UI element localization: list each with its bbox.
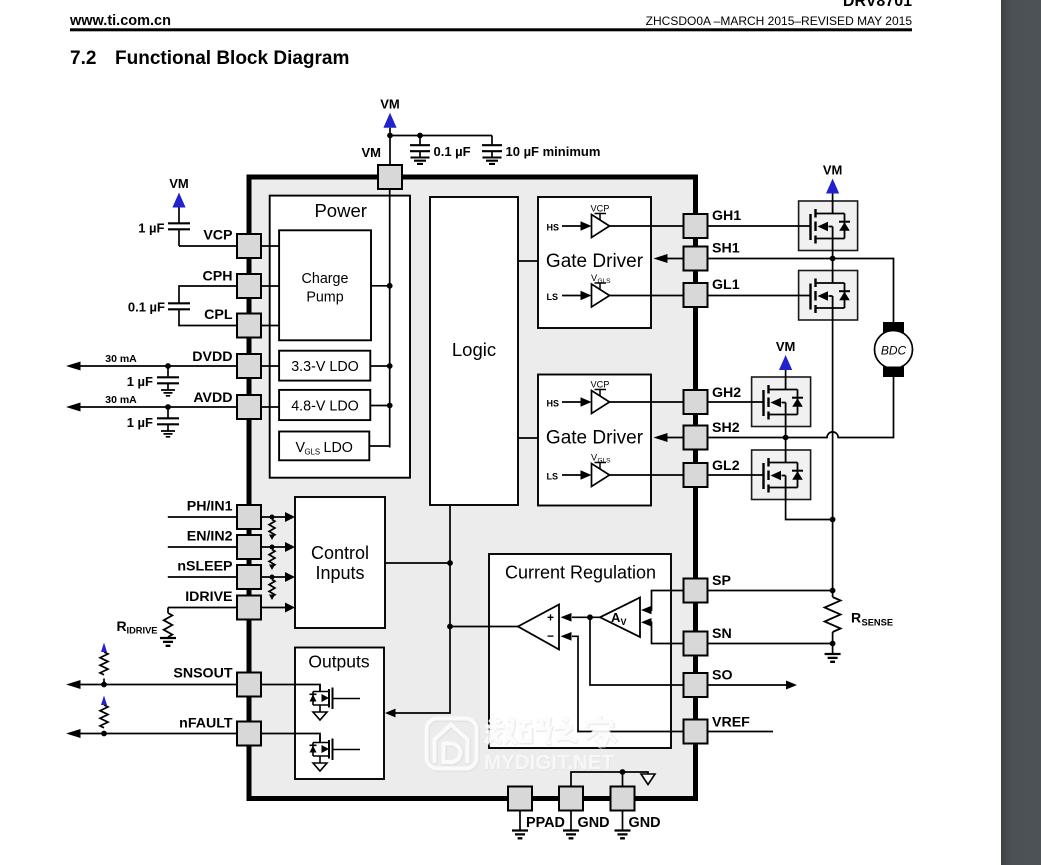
svg-text:Power: Power (314, 200, 366, 221)
wire SN to sense bottom (708, 632, 833, 654)
svg-text:SN: SN (712, 626, 732, 642)
svg-text:DVDD: DVDD (192, 349, 232, 365)
svg-text:www.ti.com.cn: www.ti.com.cn (69, 13, 171, 29)
node AV output tap (587, 614, 593, 620)
svg-text:30 mA: 30 mA (105, 353, 137, 365)
svg-text:VM: VM (776, 339, 796, 354)
wire LS1 to GL1 (610, 295, 684, 297)
svg-text:Inputs: Inputs (315, 563, 364, 583)
wire GL2 to Q4 gate (708, 474, 764, 476)
svg-text:CPH: CPH (203, 269, 233, 285)
wire IDRIVE to control inputs (261, 607, 285, 609)
svg-text:R: R (117, 618, 127, 634)
node SNSOUT pullup (101, 682, 107, 688)
pin PPAD (508, 787, 532, 811)
svg-text:CPL: CPL (204, 307, 233, 323)
node SN (830, 641, 836, 647)
comparator U1 (518, 605, 559, 650)
wire EN/IN2 to control inputs (261, 546, 285, 548)
pullup supply arrow SNSOUT (101, 643, 107, 653)
pin AVDD (237, 395, 261, 419)
pin SP (684, 579, 708, 603)
svg-text:10 µF minimum: 10 µF minimum (506, 144, 601, 159)
node SH2 (783, 435, 789, 441)
wire Q4 source to sense node (786, 500, 833, 520)
wire AVDD to 4.8 LDO (261, 406, 279, 408)
pin VREF (684, 720, 708, 744)
FET box Q4 low side bridge2 (752, 450, 811, 500)
svg-text:SH1: SH1 (712, 241, 740, 257)
pulldown nSLEEP (270, 575, 275, 580)
node control inputs tap (447, 560, 453, 566)
node SP (830, 588, 836, 594)
wire SNSOUT out with arrow (79, 684, 237, 686)
VGLS supply bar LS2 (591, 453, 611, 465)
wire SH2 with hop over sense line (708, 377, 894, 438)
wire Q4 drain to SH2 (785, 438, 787, 451)
pulldown EN/IN2 (270, 545, 275, 550)
resistor R_SENSE (825, 597, 841, 632)
resistor pullup SNSOUT (103, 679, 105, 685)
output FET Q nFAULT (310, 736, 361, 772)
pin VCP (237, 234, 261, 258)
svg-text:Current Regulation: Current Regulation (505, 563, 656, 583)
wire SH1 into gate driver 1 (667, 258, 684, 260)
capacitor 0.1 uF between CPH CPL (179, 286, 237, 326)
svg-text:7.2: 7.2 (70, 48, 96, 69)
pin SH1 (684, 247, 708, 271)
wire HS1 to GH1 (610, 225, 684, 227)
pin SO (684, 673, 708, 697)
svg-text:Charge: Charge (302, 271, 349, 287)
Logic box (430, 197, 518, 505)
wire logic to outputs arrow (394, 505, 450, 713)
wire AV output to SO pin (590, 617, 684, 685)
Current Regulation box (489, 554, 671, 748)
node SH1 (830, 256, 836, 262)
svg-text:0.1 µF: 0.1 µF (128, 300, 165, 315)
wire AVDD out with arrow (79, 406, 237, 408)
svg-text:VREF: VREF (712, 715, 750, 731)
GND2 ground lead (622, 811, 624, 831)
wire Q1 source to Q2 drain (832, 251, 834, 271)
svg-text:Logic: Logic (452, 339, 496, 360)
3.3-V LDO box (279, 351, 370, 381)
label R_IDRIVE (117, 618, 158, 636)
svg-text:EN/IN2: EN/IN2 (187, 529, 233, 545)
wire GL1 to Q2 gate (708, 295, 811, 297)
pin DVDD (237, 354, 261, 378)
pin GH2 (684, 390, 708, 414)
wire HS2 to GH2 (610, 401, 684, 403)
Outputs box (295, 648, 384, 780)
node GND junction (620, 769, 626, 775)
FET box Q3 high side bridge2 (752, 377, 811, 427)
svg-text:Outputs: Outputs (308, 652, 370, 672)
wire DVDD to 3.3 LDO (261, 365, 279, 367)
svg-text:Gate Driver: Gate Driver (546, 428, 644, 449)
resistor pullup nFAULT (103, 732, 105, 734)
wire PH/IN1 to control inputs (261, 516, 285, 518)
pin SH2 (684, 426, 708, 450)
wire GH2 to Q3 gate (708, 401, 764, 403)
svg-text:SNSOUT: SNSOUT (173, 666, 232, 682)
svg-text:IDRIVE: IDRIVE (127, 626, 158, 636)
svg-text:0.1 µF: 0.1 µF (434, 144, 471, 159)
svg-text:HS: HS (547, 223, 560, 233)
FET box Q2 low side bridge1 (799, 271, 858, 321)
wire SH2 into gate driver 2 (667, 437, 684, 439)
node DVDD cap (165, 363, 171, 369)
wire nFAULT to output FET (261, 734, 320, 743)
svg-text:Pump: Pump (306, 290, 343, 306)
wire PH/IN1 input (168, 516, 237, 518)
pin SNSOUT (237, 673, 261, 697)
pin GL1 (684, 283, 708, 307)
pulldown PH/IN1 (270, 515, 275, 520)
svg-text:SENSE: SENSE (862, 618, 894, 628)
svg-text:ZHCSDO0A –MARCH 2015–REVISED M: ZHCSDO0A –MARCH 2015–REVISED MAY 2015 (646, 14, 913, 28)
svg-text:GL1: GL1 (712, 277, 740, 293)
wire VCP to charge pump (261, 245, 279, 247)
wire SP to sense (708, 590, 833, 592)
svg-text:4.8-V LDO: 4.8-V LDO (291, 399, 359, 415)
svg-text:PPAD: PPAD (526, 815, 565, 831)
transistor Q4 (764, 450, 804, 500)
node 3.3 LDO / VM (387, 363, 393, 369)
wire SH1 to half-bridge1 and motor (708, 259, 894, 323)
capacitor 1 uF at AVDD (167, 407, 169, 431)
svg-text:VM: VM (169, 176, 189, 191)
svg-text:A: A (611, 610, 621, 625)
wire nSLEEP input (168, 576, 237, 578)
transistor Q2 (811, 271, 851, 321)
node 0.1uF tap (417, 133, 423, 139)
svg-text:1 µF: 1 µF (127, 415, 153, 430)
wire IDRIVE input (168, 608, 237, 614)
supply VM arrow at VCP cap (172, 193, 185, 208)
svg-text:Control: Control (311, 543, 369, 563)
svg-text:GH1: GH1 (712, 208, 741, 224)
transistor Q1 (811, 201, 851, 251)
wire logic to gate driver 1 (518, 260, 538, 262)
wire SNSOUT to output FET (261, 685, 320, 692)
motor BDC (883, 322, 904, 333)
internal ground marker triangle (641, 774, 655, 785)
capacitor 10 uF minimum (top) (491, 136, 493, 158)
svg-text:LDO: LDO (324, 440, 353, 456)
svg-text:HS: HS (547, 399, 560, 409)
wire nFAULT out with arrow (79, 733, 237, 735)
wire VM to Q3 drain (785, 370, 787, 377)
node VM/cap junction (387, 133, 393, 139)
node 4.8 LDO / VM (387, 403, 393, 409)
svg-text:VCP: VCP (591, 204, 610, 214)
pin CPH (237, 274, 261, 298)
svg-text:−: − (547, 629, 554, 643)
pin EN/IN2 (237, 535, 261, 559)
GND1 ground lead (570, 811, 572, 831)
svg-text:1 µF: 1 µF (138, 221, 164, 236)
svg-text:SP: SP (712, 573, 731, 589)
svg-text:LS: LS (547, 472, 559, 482)
svg-text:GLS: GLS (305, 448, 321, 457)
4.8-V LDO box (279, 390, 370, 420)
svg-text:IDRIVE: IDRIVE (185, 589, 232, 605)
node comparator tap (447, 624, 453, 630)
pin CPL (237, 314, 261, 338)
svg-text:PH/IN1: PH/IN1 (187, 499, 233, 515)
pullup supply arrow nFAULT (101, 696, 107, 706)
wire CPL to charge pump (261, 325, 279, 327)
svg-text:GL2: GL2 (712, 458, 740, 474)
wire EN/IN2 input (168, 546, 237, 548)
Gate Driver 2 box (538, 375, 651, 506)
wire DVDD out with arrow (79, 365, 237, 367)
svg-text:GH2: GH2 (712, 385, 741, 401)
wire VM rail inside power (369, 189, 389, 448)
output FET Q SNSOUT (310, 685, 361, 721)
wire VM arrow to pin and to caps (390, 128, 492, 165)
svg-text:GND: GND (578, 815, 610, 831)
wire comparator output (450, 626, 518, 628)
svg-text:3.3-V LDO: 3.3-V LDO (291, 359, 359, 375)
VGLS supply bar LS1 (591, 273, 611, 285)
pin nFAULT (237, 722, 261, 746)
wire Q2 source down to sense node (832, 320, 834, 597)
wire Q3 source to SH2 (785, 427, 787, 438)
wire logic to gate driver 2 (518, 437, 538, 439)
svg-text:+: + (547, 611, 554, 625)
supply VM arrow bridge2 (779, 355, 792, 370)
node AVDD cap (165, 404, 171, 410)
pin VM (top) (378, 165, 402, 189)
Charge Pump box (279, 230, 371, 340)
svg-text:Functional Block Diagram: Functional Block Diagram (115, 48, 349, 69)
pin nSLEEP (237, 565, 261, 589)
wire control inputs to logic net (385, 562, 450, 564)
svg-text:nFAULT: nFAULT (179, 716, 233, 732)
svg-text:BDC: BDC (881, 344, 907, 358)
svg-text:1 µF: 1 µF (127, 374, 153, 389)
pin GL2 (684, 463, 708, 487)
IC body DRV8701 (249, 177, 696, 799)
Power box (270, 196, 410, 478)
svg-text:DRV8701: DRV8701 (843, 0, 912, 10)
node charge pump / VM (387, 283, 393, 289)
svg-text:VCP: VCP (591, 380, 610, 390)
svg-text:R: R (851, 610, 861, 626)
svg-text:VM: VM (362, 145, 382, 160)
svg-text:VCP: VCP (203, 228, 232, 244)
wire CPH to charge pump (261, 285, 279, 287)
FET box Q1 high side bridge1 (799, 201, 858, 251)
VGLS LDO box (279, 432, 369, 461)
Gate Driver 1 box (538, 197, 651, 328)
svg-text:Gate Driver: Gate Driver (546, 251, 644, 272)
wire SN to AV input (651, 622, 684, 643)
label R_SENSE (851, 610, 893, 628)
svg-text:V: V (621, 617, 627, 627)
node nFAULT pullup (101, 731, 107, 737)
svg-text:LS: LS (547, 292, 559, 302)
capacitor 1 uF at VCP (179, 208, 237, 247)
transistor Q3 (764, 377, 804, 427)
svg-text:MYDIGIT.NET: MYDIGIT.NET (484, 751, 614, 774)
label AV gain (611, 610, 627, 627)
svg-text:AVDD: AVDD (193, 390, 232, 406)
svg-text:nSLEEP: nSLEEP (177, 559, 232, 575)
ground R_SENSE (825, 654, 841, 662)
wire SO output stub (708, 684, 788, 686)
wire GH1 to Q1 gate (708, 225, 811, 227)
ground for 10 uF (483, 158, 502, 164)
Control Inputs box (295, 497, 385, 628)
PPAD ground lead (519, 811, 521, 831)
label VGLS LDO (296, 440, 353, 457)
pin IDRIVE (237, 596, 261, 620)
resistor R_IDRIVE (164, 613, 173, 637)
supply VM arrow bridge1 (826, 179, 839, 194)
wire SP to AV input (651, 591, 684, 611)
pin GND 1 (559, 787, 583, 811)
capacitor 0.1 uF (top) (419, 136, 421, 158)
wire VREF stub (708, 731, 774, 733)
wire AV output to comparator plus (572, 616, 600, 618)
wire nSLEEP to control inputs (261, 576, 285, 578)
wire LS2 to GL2 (610, 474, 684, 476)
wire VM to Q1 drain (832, 194, 834, 202)
bottom GND net wire (571, 772, 648, 787)
svg-text:30 mA: 30 mA (105, 394, 137, 406)
header rule (70, 28, 912, 31)
pin GH1 (684, 214, 708, 238)
pin SN (684, 632, 708, 656)
pin GND 2 (611, 787, 635, 811)
node sense join (830, 517, 836, 523)
ground for 0.1 uF (411, 158, 430, 164)
pin PH/IN1 (237, 505, 261, 529)
supply VM arrow above chip (383, 113, 396, 128)
wire VREF to comparator minus (572, 636, 684, 731)
svg-text:SO: SO (712, 668, 733, 684)
svg-text:GND: GND (629, 815, 661, 831)
capacitor 1 uF at DVDD (167, 366, 169, 390)
svg-text:VM: VM (823, 163, 843, 178)
svg-text:VM: VM (380, 97, 400, 112)
svg-text:SH2: SH2 (712, 420, 740, 436)
op-amp AV (600, 598, 640, 638)
